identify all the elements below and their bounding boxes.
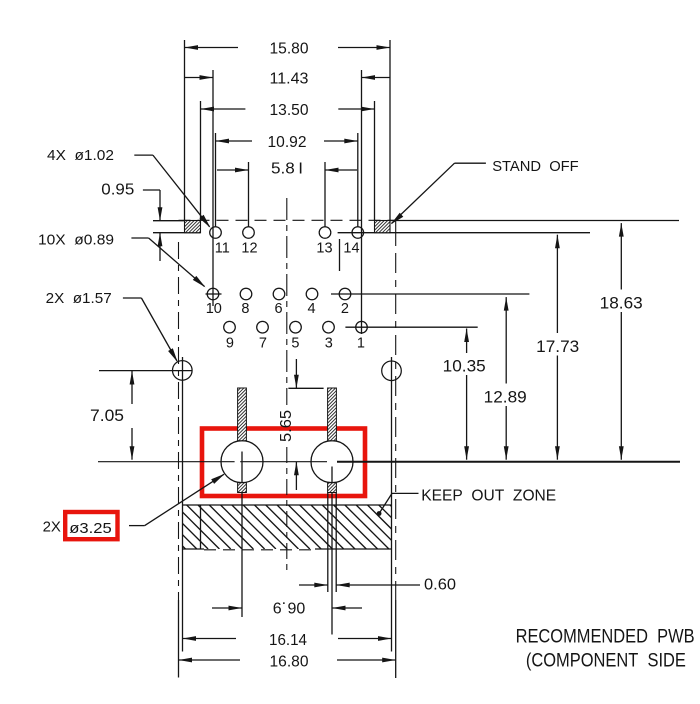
svg-text:(COMPONENT SIDE: (COMPONENT SIDE	[526, 650, 686, 671]
svg-text:ø3.25: ø3.25	[69, 520, 111, 537]
svg-text:1: 1	[357, 336, 365, 352]
svg-text:16.14: 16.14	[269, 632, 307, 649]
svg-text:15.80: 15.80	[270, 40, 309, 57]
svg-text:16.80: 16.80	[270, 654, 309, 671]
svg-text:7.05: 7.05	[90, 406, 124, 425]
svg-text:5.65: 5.65	[278, 410, 295, 442]
svg-text:2X ø1.57: 2X ø1.57	[46, 290, 112, 307]
svg-text:13: 13	[316, 240, 332, 256]
svg-text:8: 8	[241, 301, 249, 317]
svg-text:10.92: 10.92	[268, 134, 307, 151]
svg-text:2: 2	[341, 301, 349, 317]
svg-text:STAND OFF: STAND OFF	[492, 158, 579, 175]
svg-text:12: 12	[241, 240, 257, 256]
svg-text:4: 4	[307, 301, 315, 317]
svg-text:RECOMMENDED PWB: RECOMMENDED PWB	[516, 626, 695, 647]
svg-text:0.60: 0.60	[424, 576, 456, 593]
svg-text:2X: 2X	[43, 519, 61, 536]
svg-text:12.89: 12.89	[484, 388, 527, 407]
svg-text:11.43: 11.43	[270, 70, 309, 87]
svg-text:4X ø1.02: 4X ø1.02	[47, 147, 114, 164]
svg-text:3: 3	[325, 336, 333, 352]
svg-text:18.63: 18.63	[600, 294, 643, 313]
svg-text:13.50: 13.50	[270, 102, 309, 119]
svg-text:9: 9	[226, 336, 234, 352]
svg-text:10: 10	[206, 301, 222, 317]
svg-text:10.35: 10.35	[443, 357, 486, 376]
svg-text:0.95: 0.95	[101, 182, 134, 199]
svg-text:14: 14	[343, 240, 359, 256]
svg-text:KEEP OUT ZONE: KEEP OUT ZONE	[421, 488, 556, 505]
svg-text:5.8 I: 5.8 I	[271, 161, 303, 178]
svg-text:10X ø0.89: 10X ø0.89	[38, 231, 114, 248]
svg-text:7: 7	[259, 336, 267, 352]
svg-text:5: 5	[291, 336, 299, 352]
svg-text:6: 6	[275, 301, 283, 317]
svg-text:17.73: 17.73	[536, 337, 579, 356]
svg-text:11: 11	[215, 240, 230, 256]
